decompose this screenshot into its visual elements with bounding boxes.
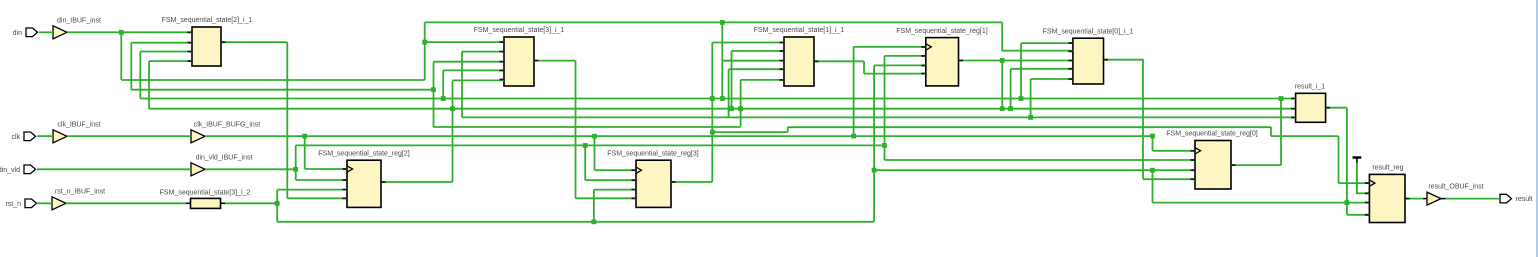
node state[1] row source (1000, 106, 1005, 111)
wire state[3] riser to state[3]_i_1 (461, 52, 463, 118)
wire row step (787, 127, 789, 132)
svg-text:din: din (13, 30, 22, 37)
svg-text:result: result (1516, 196, 1533, 203)
wire state[0] feedback row (140, 98, 1295, 100)
svg-text:FSM_sequential_state_reg[1]: FSM_sequential_state_reg[1] (896, 28, 987, 35)
wire result_i_1 output (1326, 107, 1347, 109)
FF FSM_sequential_state_reg[0] (1166, 131, 1257, 189)
node din at state[3]_i_1 (422, 40, 427, 45)
LUT result_i_1 (1291, 84, 1330, 123)
wire reg[1] out drop to state[1] row (1001, 61, 1003, 109)
node reg[1] out branch (1000, 58, 1005, 63)
wire reg[0] output riser (1280, 99, 1282, 166)
node result D join (1345, 200, 1350, 205)
wire din drop to state[0]_i_1 pin2 (1001, 22, 1003, 51)
wire din to state[3]_i_1 pin1 (425, 41, 504, 43)
wire reset row to reg[0] (874, 169, 1195, 171)
wire to reg[1] D (864, 73, 926, 75)
wire reset riser (276, 190, 278, 222)
wire state[0] to state[3]_i_1 pin4 (443, 69, 504, 71)
wire state[2] riser to state[1]_i_1 pin5 (740, 80, 742, 127)
wire din to state[0]_i_1 pin5 (1031, 78, 1073, 80)
wire state[1]_i_1 output (814, 60, 864, 62)
node din_vld tap reg[2] (293, 167, 298, 172)
wire din_vld riser reg[2] (295, 145, 297, 180)
node state[0] source (1279, 96, 1284, 101)
wire riser at reg[0] (1152, 170, 1154, 202)
svg-text:din_IBUF_inst: din_IBUF_inst (57, 17, 101, 24)
wire state[0]_i_1 output (1104, 59, 1144, 61)
wire reg[2] output (381, 181, 453, 183)
wire din riser at 424 (424, 22, 426, 80)
svg-text:result_reg: result_reg (1372, 165, 1403, 172)
wire next_state[1] jog (863, 61, 865, 73)
wire reg[0] C drop (1152, 136, 1154, 151)
wire reg[3] output (671, 181, 712, 183)
node reset tap reg[3] (592, 219, 597, 224)
svg-text:FSM_sequential_state[2]_i_1: FSM_sequential_state[2]_i_1 (162, 17, 253, 24)
node state[1] tap (431, 87, 436, 92)
buffer clk_IBUF_BUFG_inst (187, 121, 260, 143)
svg-text:din_vld_IBUF_inst: din_vld_IBUF_inst (196, 154, 253, 161)
wire din_IBUF to state[2]_i_1 pin1 (67, 31, 192, 33)
node state[0] tap 1 (441, 96, 446, 101)
wire reg[2] pin3 wire (277, 189, 347, 191)
wire result_reg pin3 wire (1153, 202, 1370, 204)
wire state[2]_i_1 output (221, 41, 287, 43)
port output port result (1500, 194, 1533, 203)
wire clock riser to reg[1] (853, 47, 855, 136)
port input port din_vld (0, 165, 36, 174)
node state[0] tap 2 (710, 96, 715, 101)
wire state[3]_i_1 output (534, 60, 576, 62)
wire din_vld row (205, 168, 296, 170)
node clock tap reg[0] (1150, 134, 1155, 139)
svg-text:result_i_1: result_i_1 (1295, 84, 1325, 91)
LUT FSM_sequential_state[1]_i_1 (754, 27, 845, 86)
wire state[1]_i_1 pin4 wire (729, 68, 784, 70)
wire din_vld branch row (296, 144, 885, 146)
wire reset bottom row (277, 221, 874, 223)
wire din port to IBUF (39, 31, 53, 33)
wire next_state[2] drop (286, 42, 288, 198)
svg-text:result_OBUF_inst: result_OBUF_inst (1428, 184, 1483, 191)
node din top branch (720, 20, 725, 25)
wire OBUF to result port (1446, 198, 1501, 200)
node din cross tap (720, 96, 725, 101)
wire state[0] to state[2]_i_1 pin3 (140, 51, 192, 53)
wire riser reg[1] CE (884, 56, 886, 160)
buffer din_vld_IBUF_inst (187, 154, 252, 176)
wire reg[1] C pin wire (854, 46, 926, 48)
wire to reg[2] D (287, 197, 347, 199)
node clock tap reg[3] (592, 134, 597, 139)
wire reg[0] pin1 wire (1153, 150, 1196, 152)
wire state[2] to state[0]_i_1 pin4 (1011, 68, 1073, 70)
node din_vld cross (882, 143, 887, 148)
node reset branch 2 (872, 168, 877, 173)
wire reg[2] output riser (452, 80, 454, 182)
wire state riser at 712 (711, 43, 713, 183)
const0 supply symbol (1353, 158, 1370, 194)
wire state[0] to state[0]_i_1 pin1 (1021, 42, 1073, 44)
LUT FSM_sequential_state[0]_i_1 (1043, 28, 1134, 84)
wire state[1] riser to state[2]_i_1 (130, 43, 132, 90)
svg-text:rst_n: rst_n (5, 201, 21, 208)
wire clock drop to reg[2] (304, 136, 306, 169)
pin stubs overlay (188, 32, 1410, 215)
FF FSM_sequential_state_reg[3] (607, 150, 698, 207)
svg-text:FSM_sequential_state[0]_i_1: FSM_sequential_state[0]_i_1 (1043, 28, 1134, 35)
LUT FSM_sequential_state[3]_i_1 (474, 27, 565, 86)
wire state long row west (434, 126, 741, 128)
node clock tap reg[1] (851, 134, 856, 139)
wire state[0] riser to state[3]_i_1 (442, 70, 444, 98)
wire state[1] row left (131, 89, 433, 91)
node state[2] tap 4 (1008, 106, 1013, 111)
wire state[2] riser to state[0]_i_1 (1010, 69, 1012, 109)
LUT FSM_sequential_state[2]_i_1 (162, 17, 253, 66)
FF FSM_sequential_state_reg[1] (896, 28, 987, 86)
node state[3] tap (1028, 115, 1033, 120)
wire reset riser to reg[1] (873, 65, 875, 221)
wire result_reg to OBUF (1410, 198, 1424, 200)
port input port din (13, 28, 38, 37)
node state[2] tap 2 (729, 106, 734, 111)
wire reg[1] pin3 wire (874, 64, 926, 66)
wire reg[3] pin2 wire (585, 179, 636, 181)
wire result_reg pin4 wire (1347, 214, 1370, 216)
svg-text:clk: clk (11, 134, 20, 141)
svg-text:FSM_sequential_state_reg[2]: FSM_sequential_state_reg[2] (318, 150, 409, 157)
wire drop to result_reg C (1338, 136, 1340, 183)
svg-text:clk_IBUF_BUFG_inst: clk_IBUF_BUFG_inst (194, 121, 261, 128)
svg-text:FSM_sequential_state[3]_i_2: FSM_sequential_state[3]_i_2 (160, 190, 251, 197)
wire state[2] to state[1]_i_1 pin2 (732, 50, 785, 52)
wire state[2] riser to state[2]_i_1 (148, 61, 150, 109)
node reset branch (275, 201, 280, 206)
node din_vld tap reg[3] (583, 143, 588, 148)
wire clk IBUF to BUFG (67, 135, 191, 137)
wire state[2] feedback row (149, 108, 1296, 110)
wire reg[1] pin2 wire (885, 55, 926, 57)
wire row to result_reg C area (1271, 135, 1339, 137)
wire rst_n IBUF to LUT1 (66, 202, 186, 204)
svg-text:FSM_sequential_state_reg[0]: FSM_sequential_state_reg[0] (1166, 131, 1257, 138)
node state[2] tap 3 (738, 106, 743, 111)
node state[0] tap 3 (1019, 96, 1024, 101)
wire state[0] riser to state[0]_i_1 (1020, 43, 1022, 98)
wire reg[3] pin3 wire (594, 189, 636, 191)
wire state[2] to state[3]_i_1 pin5 (453, 79, 505, 81)
wire din to state[1]_i_1 pin3 (722, 60, 784, 62)
node clock tap reg[2] (302, 134, 307, 139)
svg-text:rst_n_IBUF_inst: rst_n_IBUF_inst (55, 188, 105, 195)
wire reg[1] output row (959, 60, 1073, 62)
buffer result_OBUF_inst (1423, 184, 1484, 206)
wire din riser (120, 32, 122, 80)
wire LUT1 output (225, 202, 277, 204)
wire din_vld port to IBUF (37, 168, 191, 170)
wire din row (121, 79, 424, 81)
FF FSM_sequential_state_reg[2] (318, 150, 409, 207)
wire to reg[0] D (1143, 178, 1195, 180)
wire din_vld drop to reg[3] (584, 145, 586, 180)
wire rst_n port to IBUF (37, 202, 53, 204)
buffer din_IBUF_inst (49, 17, 101, 39)
svg-text:FSM_sequential_state[3]_i_1: FSM_sequential_state[3]_i_1 (474, 27, 565, 34)
svg-text:FSM_sequential_state_reg[3]: FSM_sequential_state_reg[3] (607, 150, 698, 157)
wire state[3] mid row (712, 131, 787, 133)
wire reg[0] output (1231, 164, 1281, 166)
wire state[1] to state[3]_i_1 pin3 (434, 61, 505, 63)
wire state[0] riser to state[2]_i_1 (139, 52, 141, 99)
LUT FSM_sequential_state[3]_i_2 (160, 190, 251, 209)
wire clk port to IBUF (37, 135, 53, 137)
buffer clk_IBUF_inst (49, 121, 101, 143)
wire state[2] riser to state[1]_i_1 pin2 (731, 51, 733, 109)
wire state[3] to state[3]_i_1 pin2 (462, 51, 504, 53)
wire reg[3] C pin wire (595, 169, 637, 171)
wire result_reg C pin wire (1339, 182, 1370, 184)
wire reg[1] to state[0]_i_1 pin2 (1002, 50, 1073, 52)
wire reg[0] pin2 wire (885, 159, 1196, 161)
wire clock drop to reg[3] (594, 136, 596, 170)
wire reg[2] pin2 wire (296, 179, 347, 181)
node state[2] tap 1 (450, 106, 455, 111)
node reset cross (1150, 168, 1155, 173)
wire result drop (1346, 108, 1348, 215)
window edge (1536, 0, 1538, 257)
wire state[1] to state[2]_i_1 pin2 (131, 42, 192, 44)
wire din drop to state[1]_i_1 (721, 22, 723, 98)
wire state[0] to state[1]_i_1 pin1 (712, 42, 784, 44)
port input port rst_n (5, 199, 36, 208)
wire next_state[0] drop (1142, 60, 1144, 180)
wire state[1] riser to state[3]_i_1 (433, 62, 435, 127)
wire state[2] to state[1]_i_1 pin5 (741, 79, 784, 81)
buffer rst_n_IBUF_inst (48, 188, 105, 210)
svg-text:FSM_sequential_state[1]_i_1: FSM_sequential_state[1]_i_1 (754, 27, 845, 34)
wire state long row east (788, 126, 1271, 128)
wire riser to state[1]_i_1 pin4 (728, 69, 730, 117)
port input port clk (11, 132, 35, 141)
wire state[1] jog down (1270, 127, 1272, 136)
wire reset riser to reg[3] (593, 190, 595, 222)
node mid row tap (710, 130, 715, 135)
wire din top trunk (425, 21, 1003, 23)
wire din drop to state[0]_i_1 (1030, 79, 1032, 117)
wire clock trunk (205, 135, 1153, 137)
svg-text:din_vld: din_vld (0, 167, 20, 174)
wire next_state[3] drop (575, 61, 577, 199)
FF result_reg (1365, 165, 1410, 223)
wire state[2] to state[2]_i_1 pin4 (149, 60, 192, 62)
svg-text:clk_IBUF_inst: clk_IBUF_inst (57, 121, 100, 128)
wire to reg[3] D (576, 197, 637, 199)
node din branch (119, 30, 124, 35)
wire reg[2] C pin wire (305, 168, 347, 170)
wire state[3] feedback row (462, 116, 1296, 118)
